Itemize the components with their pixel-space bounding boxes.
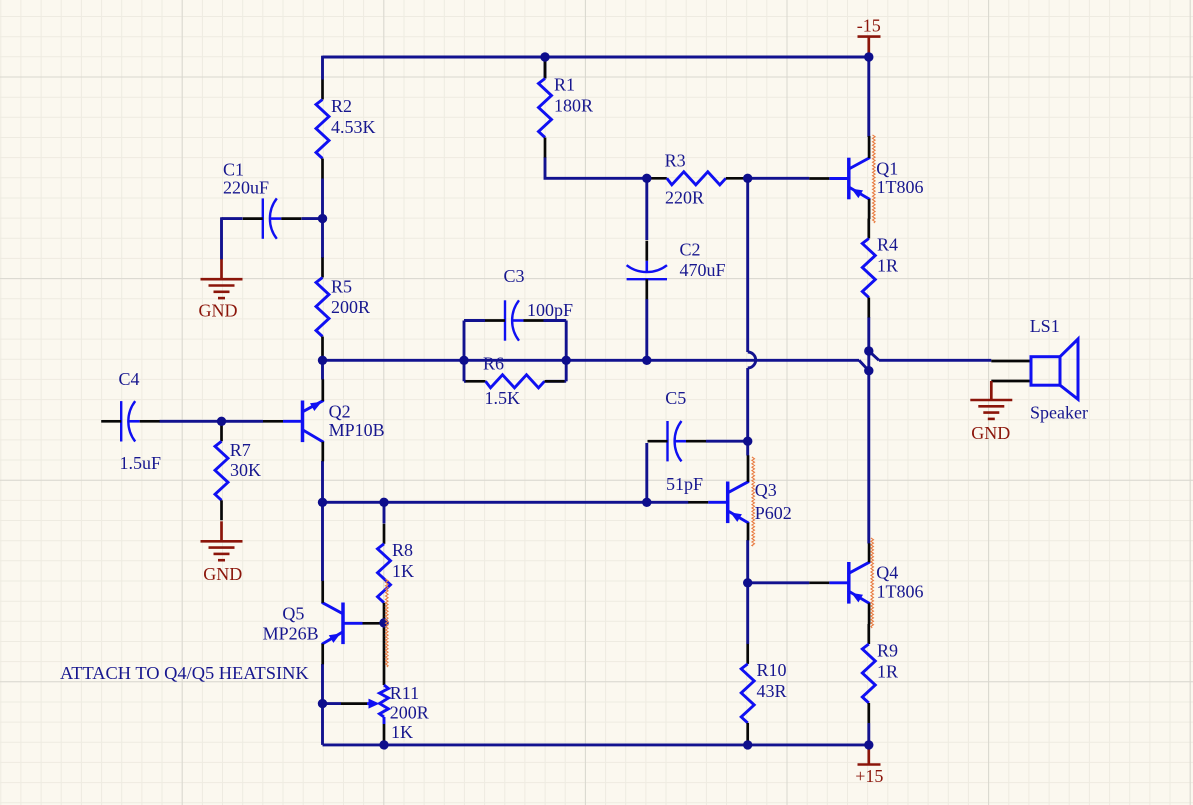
svg-text:1T806: 1T806: [877, 581, 924, 601]
label C2 470uF: [680, 240, 726, 281]
svg-text:Q2: Q2: [329, 402, 351, 422]
junction R10 bottom node: [743, 740, 752, 749]
junction R6/C3 right node: [562, 356, 571, 365]
svg-text:100pF: 100pF: [527, 300, 573, 320]
wire loop left vertical: [463, 321, 466, 382]
junction R11 wiper node: [318, 699, 327, 708]
svg-text:R8: R8: [392, 540, 413, 560]
potentiometer R11: [341, 627, 389, 745]
label Q5 MP26B: [263, 604, 319, 644]
marker squiggle Q1: [873, 135, 876, 223]
junction C1/R2/R5 node: [318, 214, 327, 223]
svg-text:1T806: 1T806: [877, 177, 924, 197]
resistor R7: [215, 421, 228, 520]
wire node row: [323, 501, 647, 504]
wire jog to lower node: [859, 360, 869, 370]
svg-text:C2: C2: [680, 240, 701, 260]
wire R2 top feed: [321, 56, 324, 80]
transistor Q4: [809, 543, 869, 624]
label C5 51pF: [665, 388, 703, 494]
svg-text:1.5K: 1.5K: [485, 388, 521, 408]
wire node to Q2 base: [222, 420, 264, 423]
label Q4 1T806: [876, 562, 923, 601]
resistor R10: [741, 644, 754, 743]
wire wiper feed: [323, 702, 342, 705]
wire C1 horizontal: [222, 217, 243, 220]
svg-text:200R: 200R: [331, 297, 370, 317]
svg-text:+15: +15: [855, 766, 883, 786]
junction C5 right node: [743, 437, 752, 446]
svg-text:4.53K: 4.53K: [331, 117, 376, 137]
label C1 220uF: [223, 160, 269, 198]
svg-text:R3: R3: [665, 151, 686, 171]
label LS1 Speaker: [1030, 316, 1088, 422]
label R4 1R: [877, 235, 898, 276]
wire output rail: [323, 359, 860, 362]
wire Q1/R3 node: [748, 177, 810, 180]
junction at -15 feed: [864, 52, 873, 61]
junction Q5 base/R8/R11 node: [379, 618, 388, 627]
label R6 1.5K: [483, 354, 520, 409]
wire R9 to bottom rail: [867, 723, 870, 745]
wire R2 to C1 node: [321, 179, 324, 219]
speaker LS1: [991, 339, 1078, 399]
wire Q3 emitter to Q4 node: [746, 540, 749, 583]
resistor R4: [862, 219, 875, 318]
label R3 220R: [665, 151, 704, 208]
capacitor C5: [648, 421, 707, 461]
wire jog from upper node: [869, 351, 879, 360]
label R2 4.53K: [331, 96, 376, 137]
svg-text:Speaker: Speaker: [1030, 402, 1088, 422]
resistor R2: [316, 80, 329, 179]
svg-text:P602: P602: [755, 503, 792, 523]
wire output to speaker: [879, 359, 991, 362]
resistor R9: [862, 624, 875, 723]
svg-text:Q4: Q4: [876, 562, 898, 582]
wire R4 to upper node: [867, 317, 870, 351]
svg-text:51pF: 51pF: [666, 474, 703, 494]
capacitor C3: [485, 300, 544, 340]
wire C5 node to Q3 collector: [746, 441, 749, 455]
svg-text:30K: 30K: [230, 460, 261, 480]
svg-text:1K: 1K: [392, 561, 414, 581]
label R10 43R: [757, 660, 787, 701]
wire C1 right to node: [302, 217, 323, 220]
svg-text:43R: 43R: [757, 681, 787, 701]
wire C2 top: [645, 178, 648, 240]
wire C4 to node: [160, 420, 222, 423]
junction R1/R3/C2 node: [642, 174, 651, 183]
label -15: [857, 16, 881, 36]
resistor R1: [539, 59, 552, 158]
junction C5/Q3 base node: [642, 498, 651, 507]
label Q3 P602: [755, 480, 792, 523]
svg-text:R11: R11: [390, 683, 419, 703]
junction output lower node: [864, 366, 873, 375]
wire Q5 collector feed: [321, 502, 324, 581]
wire bottom rail: [323, 743, 869, 746]
wire R1 bottom elbow: [545, 157, 647, 178]
ground GND at R7: [201, 521, 243, 560]
junction R3/Q1 base node: [743, 174, 752, 183]
svg-text:MP26B: MP26B: [263, 624, 319, 644]
marker squiggle Q5/R8: [386, 579, 389, 667]
wire R5 to output node: [321, 357, 324, 360]
svg-text:ATTACH TO Q4/Q5 HEATSINK: ATTACH TO Q4/Q5 HEATSINK: [60, 663, 309, 683]
wire loop right vertical: [565, 321, 568, 382]
svg-text:R9: R9: [877, 641, 898, 661]
wire output node to Q2 collector: [321, 360, 324, 379]
label R5 200R: [331, 277, 370, 318]
wire Q3 base lead-in: [647, 501, 689, 504]
power -15 bar: [858, 37, 881, 57]
wire hop to C5 node: [746, 368, 749, 441]
label Q1 1T806: [876, 158, 923, 197]
marker squiggle Q3: [752, 457, 755, 546]
svg-text:180R: 180R: [554, 96, 593, 116]
wire Q4 node to R10: [746, 583, 749, 644]
svg-text:C5: C5: [665, 388, 686, 408]
svg-text:1R: 1R: [877, 256, 898, 276]
svg-text:R1: R1: [554, 75, 575, 95]
label R8 1K: [392, 540, 414, 581]
svg-text:Q3: Q3: [755, 480, 777, 500]
junction Q2 emitter node: [318, 498, 327, 507]
label Q2 MP10B: [329, 402, 385, 440]
svg-text:R5: R5: [331, 277, 352, 297]
wire R1 top feed: [544, 57, 547, 79]
marker squiggle Q4: [871, 538, 874, 628]
ground GND at speaker: [970, 381, 1012, 419]
svg-text:R2: R2: [331, 96, 352, 116]
wire Q2 emitter to lower node: [321, 461, 324, 502]
note ATTACH TO Q4/Q5 HEATSINK: [60, 663, 309, 683]
junction R11 bottom node: [379, 740, 388, 749]
svg-text:-15: -15: [857, 16, 881, 36]
transistor Q5: [323, 581, 383, 665]
label GND at speaker: [971, 423, 1010, 443]
resistor R5: [316, 258, 329, 357]
wire R8 top: [383, 502, 386, 523]
svg-text:C3: C3: [504, 266, 525, 286]
wire C1 down to GND: [220, 217, 223, 259]
wire between output nodes: [867, 351, 870, 371]
wire R6 left: [464, 380, 466, 383]
transistor Q2: [263, 379, 323, 461]
junction C2 bottom node: [642, 356, 651, 365]
svg-text:GND: GND: [199, 301, 238, 321]
junction at -15 R1 tap: [540, 52, 549, 61]
wire C5 branch vertical: [645, 443, 648, 502]
junction output upper node: [864, 346, 873, 355]
wire C1 node to R5: [321, 219, 324, 258]
label C4 1.5uF: [119, 369, 162, 473]
svg-text:LS1: LS1: [1030, 316, 1060, 336]
svg-text:C4: C4: [119, 369, 140, 389]
svg-text:C1: C1: [223, 160, 244, 180]
label R7 30K: [230, 440, 261, 480]
resistor R8: [378, 524, 391, 623]
svg-text:MP10B: MP10B: [329, 420, 385, 440]
junction output left node: [318, 356, 327, 365]
wire C2 bottom: [645, 299, 648, 360]
transistor Q3: [688, 455, 748, 540]
label +15: [855, 766, 883, 786]
svg-text:200R: 200R: [390, 702, 429, 722]
label GND at C1: [199, 301, 238, 321]
transistor Q1: [809, 136, 869, 219]
label R11 200R 1K: [390, 683, 429, 742]
svg-text:1K: 1K: [391, 722, 413, 742]
ground GND at C1: [201, 259, 243, 298]
svg-text:R4: R4: [877, 235, 898, 255]
junction C4/R7/Q2 node: [217, 417, 226, 426]
wire Q5 emitter to bottom rail: [321, 664, 324, 745]
svg-text:220R: 220R: [665, 187, 704, 207]
svg-text:R7: R7: [230, 440, 251, 460]
svg-text:470uF: 470uF: [680, 260, 726, 280]
wire top rail: [323, 56, 869, 59]
svg-text:1.5uF: 1.5uF: [120, 453, 162, 473]
svg-text:R10: R10: [757, 660, 787, 680]
label GND at R7: [203, 564, 242, 584]
svg-text:R6: R6: [483, 354, 504, 374]
svg-text:Q1: Q1: [876, 158, 898, 178]
label R1 180R: [554, 75, 593, 116]
capacitor C1: [243, 198, 301, 238]
svg-text:GND: GND: [203, 564, 242, 584]
wire C3 right: [544, 319, 567, 322]
resistor R6: [466, 375, 565, 388]
junction R8 top node: [379, 498, 388, 507]
svg-text:220uF: 220uF: [223, 178, 269, 198]
wire lower node to Q4: [867, 371, 870, 544]
wire -15 column to Q1: [867, 57, 870, 137]
wire R3 node down: [746, 178, 749, 352]
junction R6/C3 left node: [459, 356, 468, 365]
wire hop over output rail: [748, 352, 756, 368]
wire C3 left: [464, 319, 485, 322]
wire R6 right: [546, 380, 567, 383]
capacitor C4: [101, 401, 160, 441]
label R9 1R: [877, 641, 898, 682]
svg-text:Q5: Q5: [282, 604, 304, 624]
wire C5 right to node: [706, 440, 748, 443]
junction Q3/Q4/R10 node: [743, 578, 752, 587]
svg-text:GND: GND: [971, 423, 1010, 443]
capacitor C2: [627, 241, 667, 300]
resistor R3: [647, 172, 746, 185]
svg-text:1R: 1R: [877, 662, 898, 682]
wire Q4 base: [748, 581, 810, 584]
power +15 bar: [858, 745, 881, 765]
junction +15 node: [864, 740, 873, 749]
label C3 100pF: [504, 266, 574, 320]
